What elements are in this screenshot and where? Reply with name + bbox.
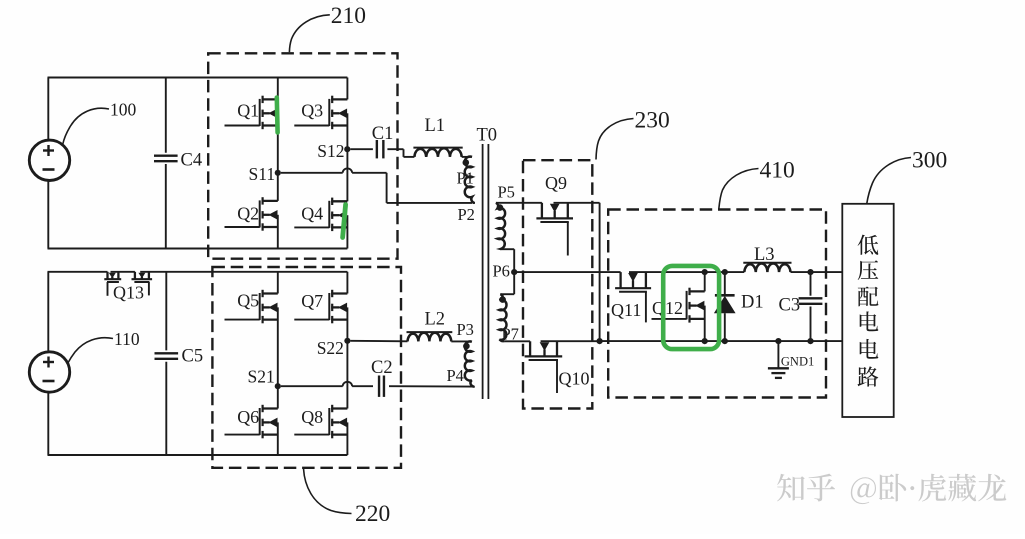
label 210 <box>289 3 366 52</box>
capacitor C2 <box>379 376 384 397</box>
svg-text:P2: P2 <box>458 205 475 224</box>
label Q12 <box>652 298 683 318</box>
node D1 top <box>722 269 728 275</box>
label D1 <box>741 293 764 313</box>
node S11 <box>275 170 281 176</box>
label S22 <box>317 338 344 358</box>
svg-text:100: 100 <box>110 100 137 120</box>
label 410 <box>719 158 795 210</box>
node GND1 rail <box>775 338 781 344</box>
node L3 C3 <box>807 269 813 275</box>
green highlight box Q12 <box>663 266 719 349</box>
block 300 text <box>858 235 879 387</box>
wire C1 to L1 <box>387 149 414 157</box>
capacitor C4 <box>154 78 178 249</box>
label Q11 <box>611 300 641 320</box>
wire source110 top <box>47 272 49 353</box>
dashed box 410 <box>608 210 826 398</box>
label Q3 <box>301 100 323 120</box>
node C3 bottom <box>807 338 813 344</box>
label 110 <box>68 329 140 364</box>
svg-text:Q6: Q6 <box>237 407 259 427</box>
node P6 <box>511 269 517 275</box>
transistor Q1 <box>225 78 278 172</box>
transformer core <box>483 144 489 399</box>
svg-text:GND1: GND1 <box>781 354 814 368</box>
wire Q10 source out <box>541 340 600 342</box>
svg-text:Q1: Q1 <box>237 100 259 120</box>
svg-text:230: 230 <box>635 108 670 134</box>
label Q6 <box>237 407 259 427</box>
polarity dot P7 <box>499 296 506 303</box>
svg-text:Q10: Q10 <box>559 369 590 389</box>
svg-text:C2: C2 <box>371 358 393 378</box>
wire S22 to L2 <box>351 340 408 343</box>
label L3 <box>754 245 775 265</box>
transistor Q12 <box>652 272 705 341</box>
winding P5 <box>496 203 505 249</box>
label Q8 <box>301 407 323 427</box>
label Q5 <box>237 290 259 310</box>
ground GND1 <box>768 341 789 378</box>
polarity dot P3 <box>463 343 470 350</box>
label S21 <box>248 366 275 386</box>
wire top rail upper <box>48 77 348 79</box>
dashed box 230 <box>523 160 592 408</box>
svg-text:110: 110 <box>114 329 140 349</box>
label C3 <box>779 296 801 316</box>
wire P5 to Q9 <box>496 202 542 204</box>
wire L2 to P3 <box>451 340 470 342</box>
wire P6 to Q11 <box>514 271 620 273</box>
green mark Q4 <box>343 205 346 238</box>
svg-text:C3: C3 <box>779 296 801 316</box>
transistor Q5 <box>225 272 278 385</box>
polarity dot P5 <box>497 204 504 211</box>
svg-text:Q8: Q8 <box>301 407 323 427</box>
wire P7 to Q10 <box>504 340 530 342</box>
label L1 <box>425 116 446 136</box>
transistor Q7 <box>294 272 347 340</box>
wire source110 bottom <box>47 392 49 456</box>
label C2 <box>371 358 393 378</box>
wire bottom rail upper <box>48 248 348 250</box>
wire D1 to L3 <box>725 271 745 273</box>
svg-text:Q9: Q9 <box>545 173 567 193</box>
voltage source 110 <box>29 352 69 392</box>
watermark zhihu <box>777 474 1006 505</box>
label 230 <box>596 108 670 160</box>
svg-text:T0: T0 <box>477 126 498 146</box>
label P7 <box>502 325 519 344</box>
label P6 <box>493 262 510 281</box>
svg-text:Q11: Q11 <box>611 300 641 320</box>
label L2 <box>425 310 446 330</box>
svg-text:L3: L3 <box>754 245 775 265</box>
green mark Q1 <box>274 98 279 133</box>
polarity dot P1 <box>463 159 470 166</box>
label P5 <box>498 183 515 202</box>
wire Q11 to Q12 node <box>629 271 705 273</box>
wire P7 exit <box>499 340 504 342</box>
node S22 <box>344 338 350 344</box>
label P2 <box>458 205 475 224</box>
wire source100 top <box>47 78 49 141</box>
transistor Q9 <box>536 203 573 256</box>
label S11 <box>249 164 276 184</box>
transistor Q3 <box>294 78 347 149</box>
dashed box 220 <box>212 267 401 468</box>
svg-text:P4: P4 <box>447 366 464 385</box>
transistor Q4 <box>294 150 347 248</box>
wire L3 to C3 <box>791 271 843 273</box>
svg-text:C4: C4 <box>181 150 203 170</box>
wire bottom rail out <box>600 340 843 342</box>
node S21 <box>275 383 281 389</box>
label Q7 <box>301 291 323 311</box>
label C1 <box>372 124 394 144</box>
svg-text:L2: L2 <box>425 310 446 330</box>
voltage source 100 <box>29 140 69 180</box>
transistor Q11 <box>615 272 651 322</box>
wire L1 to P1 <box>462 156 472 158</box>
svg-text:Q3: Q3 <box>301 100 323 120</box>
capacitor C3 <box>799 272 823 341</box>
label GND1 <box>781 354 814 368</box>
svg-text:220: 220 <box>355 501 390 527</box>
capacitor C5 <box>155 272 179 455</box>
svg-text:P5: P5 <box>498 183 515 202</box>
svg-text:300: 300 <box>912 148 947 174</box>
wire S21 to C2 <box>281 382 373 386</box>
svg-text:S22: S22 <box>317 338 344 358</box>
svg-text:P6: P6 <box>493 262 510 281</box>
capacitor C1 <box>377 140 384 158</box>
label 300 <box>867 148 947 204</box>
label Q1 <box>237 100 259 120</box>
diode D1 <box>714 272 736 341</box>
wire C2 to P4 <box>389 385 472 387</box>
wire mid rail <box>48 271 348 273</box>
label P1 <box>457 169 474 188</box>
label Q4 <box>301 204 323 224</box>
transistor Q6 <box>225 387 278 455</box>
transistor Q2 <box>225 174 278 249</box>
node Q12 source <box>702 338 708 344</box>
svg-text:Q4: Q4 <box>301 204 323 224</box>
label C5 <box>182 347 204 367</box>
label Q10 <box>559 369 590 389</box>
label 100 <box>63 100 137 145</box>
label C4 <box>181 150 203 170</box>
label Q9 <box>545 173 567 193</box>
label P3 <box>457 320 474 339</box>
label S12 <box>317 141 344 161</box>
label Q13 <box>113 282 144 302</box>
wire P6 down <box>500 272 514 294</box>
svg-text:S11: S11 <box>249 164 276 184</box>
node D1 bottom <box>722 338 728 344</box>
wire Q12 to D1 <box>705 271 725 273</box>
svg-text:C5: C5 <box>182 347 204 367</box>
wire Q9 source out <box>554 203 600 341</box>
svg-text:Q7: Q7 <box>301 291 323 311</box>
wire S12 to C1 <box>350 148 373 150</box>
inductor L1 <box>413 148 462 157</box>
node Q12 drain <box>702 269 708 275</box>
svg-text:C1: C1 <box>372 124 394 144</box>
svg-text:P1: P1 <box>457 169 474 188</box>
wire source100 bottom <box>47 180 49 249</box>
svg-text:S21: S21 <box>248 366 275 386</box>
svg-text:410: 410 <box>760 158 795 184</box>
transistor Q8 <box>294 342 347 455</box>
wire S11 to P2 <box>281 168 472 202</box>
svg-text:Q13: Q13 <box>113 282 144 302</box>
svg-text:210: 210 <box>331 3 366 29</box>
svg-text:P3: P3 <box>457 320 474 339</box>
wire P5 to P6 <box>501 249 515 272</box>
label P4 <box>447 366 464 385</box>
svg-text:S12: S12 <box>317 141 344 161</box>
svg-text:Q2: Q2 <box>237 204 259 224</box>
inductor L2 <box>407 332 453 341</box>
svg-text:L1: L1 <box>425 116 446 136</box>
svg-text:Q12: Q12 <box>652 298 683 318</box>
label Q2 <box>237 204 259 224</box>
dashed box 210 <box>208 53 397 258</box>
wire bottom rail lower <box>48 454 348 456</box>
transistor Q10 <box>525 341 563 393</box>
label 220 <box>304 469 391 528</box>
svg-text:D1: D1 <box>741 293 764 313</box>
node junction rect <box>597 338 603 344</box>
svg-text:Q5: Q5 <box>237 290 259 310</box>
winding P1 <box>465 157 475 203</box>
winding P3 <box>465 341 475 386</box>
block 300 box <box>842 204 893 417</box>
label T0 <box>477 126 498 146</box>
transistor Q13 <box>104 272 152 296</box>
inductor L3 <box>743 263 791 272</box>
node S12 <box>344 146 350 152</box>
winding P7 <box>499 294 506 340</box>
